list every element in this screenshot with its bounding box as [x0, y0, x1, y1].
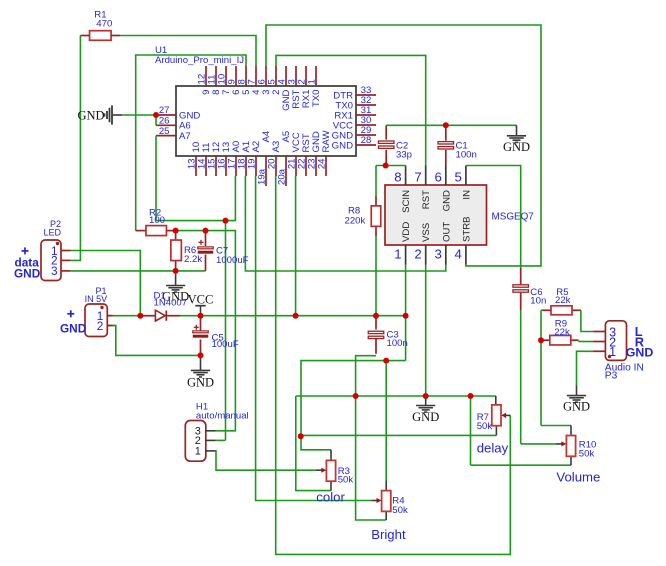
svg-text:100: 100: [149, 215, 165, 226]
svg-text:VCC: VCC: [188, 293, 214, 307]
svg-text:IN 5V: IN 5V: [85, 294, 108, 304]
svg-text:10n: 10n: [530, 296, 546, 307]
svg-text:GND: GND: [563, 400, 590, 414]
svg-text:OUT: OUT: [441, 222, 452, 242]
svg-text:50k: 50k: [579, 449, 595, 460]
svg-text:3: 3: [434, 246, 441, 261]
svg-text:GND: GND: [78, 108, 105, 122]
svg-text:20: 20: [267, 159, 278, 170]
svg-text:GND: GND: [14, 267, 41, 281]
svg-text:P3: P3: [605, 370, 618, 381]
svg-text:TX0: TX0: [311, 90, 322, 108]
svg-text:GND: GND: [503, 140, 530, 154]
svg-text:GND: GND: [332, 140, 353, 151]
svg-text:RST: RST: [421, 190, 432, 209]
svg-text:GND: GND: [626, 345, 654, 359]
svg-text:2.2k: 2.2k: [184, 254, 202, 265]
svg-text:Bright: Bright: [371, 527, 406, 542]
svg-text:19a: 19a: [257, 168, 268, 185]
svg-text:Volume: Volume: [556, 470, 600, 485]
svg-text:A4: A4: [261, 130, 272, 142]
svg-text:GND: GND: [441, 190, 452, 211]
svg-text:1N4007: 1N4007: [154, 298, 188, 309]
svg-text:100n: 100n: [387, 338, 408, 349]
svg-text:19: 19: [247, 159, 258, 170]
svg-text:2: 2: [414, 246, 421, 261]
svg-text:6: 6: [434, 170, 441, 185]
svg-text:A7: A7: [179, 131, 191, 142]
svg-text:220k: 220k: [345, 216, 366, 227]
svg-text:25: 25: [159, 126, 170, 137]
svg-text:1: 1: [394, 246, 401, 261]
svg-text:1000uF: 1000uF: [216, 255, 249, 266]
svg-text:7: 7: [414, 170, 421, 185]
svg-text:24: 24: [317, 158, 328, 169]
svg-text:VDD: VDD: [401, 222, 412, 242]
svg-text:4: 4: [455, 246, 462, 261]
svg-text:delay: delay: [477, 440, 509, 455]
svg-text:GND: GND: [60, 321, 87, 335]
svg-text:28: 28: [361, 135, 372, 146]
svg-text:33p: 33p: [396, 150, 412, 161]
svg-text:Arduino_Pro_mini_IJ: Arduino_Pro_mini_IJ: [155, 55, 244, 66]
svg-text:8: 8: [394, 170, 401, 185]
svg-text:20a: 20a: [277, 168, 288, 185]
svg-text:IN: IN: [461, 190, 472, 200]
svg-text:100n: 100n: [456, 150, 477, 161]
svg-text:5: 5: [455, 170, 462, 185]
svg-text:50k: 50k: [477, 421, 493, 432]
svg-text:100uF: 100uF: [212, 339, 239, 350]
svg-text:470: 470: [96, 19, 112, 30]
svg-text:color: color: [316, 490, 345, 505]
svg-text:3: 3: [51, 264, 58, 278]
svg-text:1: 1: [195, 446, 201, 458]
svg-text:STRB: STRB: [461, 216, 472, 242]
svg-text:50k: 50k: [338, 475, 354, 486]
svg-text:RAW: RAW: [321, 130, 332, 153]
svg-text:LED: LED: [43, 228, 61, 238]
svg-text:SCIN: SCIN: [401, 190, 412, 213]
svg-text:50k: 50k: [392, 505, 408, 516]
svg-text:2: 2: [97, 319, 104, 333]
svg-text:VSS: VSS: [421, 223, 432, 242]
svg-text:22k: 22k: [554, 327, 570, 338]
svg-text:auto/manual: auto/manual: [196, 410, 249, 421]
svg-text:1: 1: [307, 79, 318, 84]
svg-text:GND: GND: [187, 375, 214, 389]
svg-text:MSGEQ7: MSGEQ7: [492, 212, 534, 223]
svg-text:22k: 22k: [555, 295, 571, 306]
svg-text:GND: GND: [412, 410, 439, 424]
